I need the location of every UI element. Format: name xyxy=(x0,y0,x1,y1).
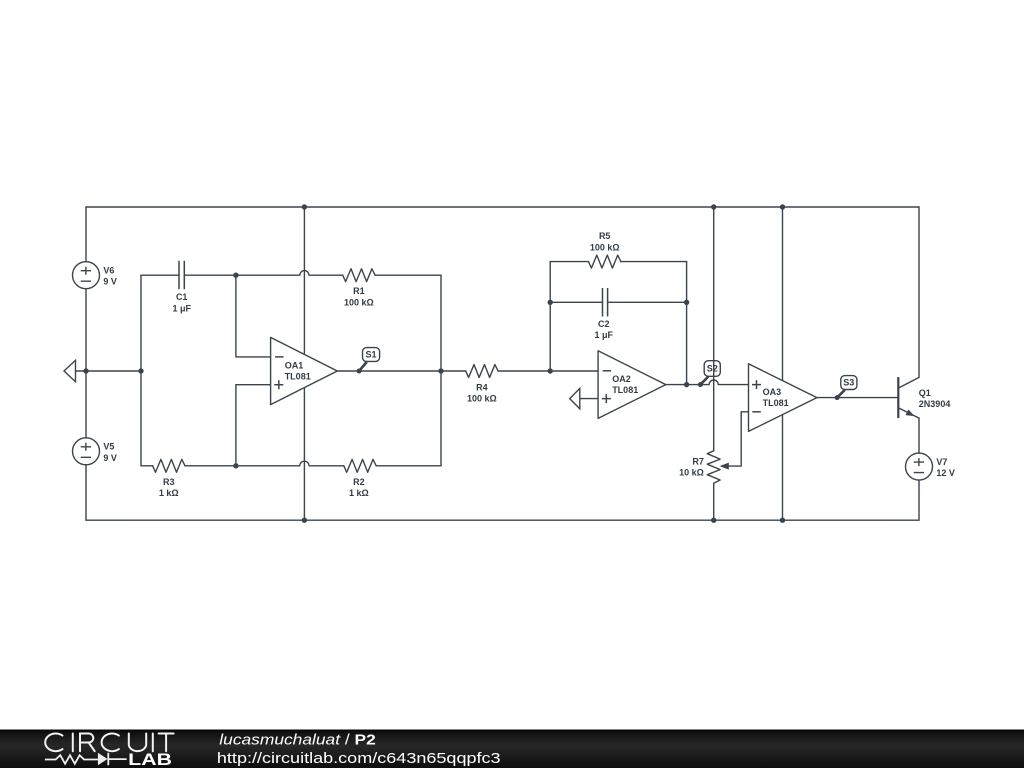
wire R5 right lead xyxy=(621,261,687,263)
svg-text:Q1: Q1 xyxy=(919,388,931,398)
svg-text:LAB: LAB xyxy=(128,751,172,768)
wire right rail upper xyxy=(918,207,920,377)
wire R2 right lead xyxy=(376,465,441,467)
svg-text:R3: R3 xyxy=(163,477,175,487)
logo diode triangle xyxy=(98,753,108,765)
wire R1 to right feedback corner xyxy=(375,274,441,276)
resistor R4 zigzag xyxy=(466,365,498,378)
wire vertical x441 feedback xyxy=(440,275,442,466)
wire C1 left lead xyxy=(141,274,179,276)
wire R4 to OA2 inverting input xyxy=(498,370,598,372)
label R1 xyxy=(344,286,374,307)
resistor R2 zigzag xyxy=(344,459,376,472)
svg-text:S3: S3 xyxy=(843,378,854,388)
svg-text:1 μF: 1 μF xyxy=(595,330,614,340)
op-amp OA3 xyxy=(749,364,817,432)
wire R7 wiper from OA3 inverting input xyxy=(726,412,741,466)
wire OA1 output xyxy=(337,370,441,372)
label R5 xyxy=(590,231,620,252)
svg-text:V7: V7 xyxy=(936,457,947,467)
wire OA2 output with hop over x714 rail xyxy=(666,380,749,385)
label V6 xyxy=(103,266,117,287)
wire OA2 feedback loop right vertical xyxy=(686,262,688,385)
potentiometer R7 zigzag xyxy=(707,451,720,483)
footer bar xyxy=(0,730,1024,768)
op-amp OA2 xyxy=(598,351,666,419)
label R4 xyxy=(467,382,497,403)
wire left rail lower xyxy=(85,465,87,520)
label R7 xyxy=(679,456,704,477)
voltage source V5 xyxy=(73,438,100,465)
wire C2 right lead xyxy=(608,301,687,303)
capacitor C2 plates xyxy=(603,288,608,317)
wire Q1 emitter diagonal xyxy=(898,408,919,418)
label R3 xyxy=(159,477,179,498)
wire R4 left lead xyxy=(441,370,466,372)
wire mid rail vertical x304 xyxy=(303,207,305,520)
potentiometer R7 wiper arrow xyxy=(720,463,729,470)
svg-text:1 kΩ: 1 kΩ xyxy=(159,488,179,498)
label V5 xyxy=(103,442,117,463)
label Q1 xyxy=(919,388,951,409)
probe tag S2 xyxy=(698,361,720,387)
wire vertical x714 upper xyxy=(713,207,715,451)
label C1 xyxy=(172,292,191,313)
svg-text:R7: R7 xyxy=(692,456,704,466)
svg-text:100 kΩ: 100 kΩ xyxy=(590,242,620,252)
svg-text:V5: V5 xyxy=(103,442,114,452)
wire R3 left lead xyxy=(141,465,153,467)
resistor R3 zigzag xyxy=(153,459,185,472)
wire R3 to R2 with hop over mid rail xyxy=(185,461,344,466)
svg-text:R4: R4 xyxy=(476,382,488,392)
wire R5 left lead xyxy=(550,261,588,263)
voltage source V7 xyxy=(906,453,933,480)
wire OA2 feedback loop left vertical xyxy=(549,262,551,371)
junction node dots xyxy=(83,204,785,523)
svg-text:100 kΩ: 100 kΩ xyxy=(467,394,497,404)
svg-text:lucasmuchaluat / P2: lucasmuchaluat / P2 xyxy=(219,732,375,749)
wire vertical x714 lower xyxy=(713,483,715,520)
svg-text:C2: C2 xyxy=(598,319,610,329)
wire input node to C1 branch xyxy=(76,370,142,372)
input flag node left xyxy=(64,360,76,381)
svg-text:S2: S2 xyxy=(707,364,718,374)
logo CIRCUIT letters xyxy=(45,734,173,752)
svg-text:S1: S1 xyxy=(365,350,376,360)
svg-text:OA1: OA1 xyxy=(285,361,304,371)
wire right rail lower xyxy=(918,480,920,520)
wire left rail upper xyxy=(85,207,87,262)
svg-text:1 kΩ: 1 kΩ xyxy=(349,488,369,498)
svg-text:R2: R2 xyxy=(353,477,365,487)
wire C1 right lead to R1 with hop over mid rail xyxy=(184,271,342,276)
capacitor C1 plates xyxy=(179,261,184,290)
svg-text:C1: C1 xyxy=(176,292,188,302)
wire OA3 output to Q1 base xyxy=(817,397,898,399)
resistor R1 zigzag xyxy=(343,269,375,282)
label C2 xyxy=(595,319,614,340)
svg-text:9 V: 9 V xyxy=(103,453,117,463)
svg-text:http://circuitlab.com/c643n65q: http://circuitlab.com/c643n65qqpfc3 xyxy=(217,750,501,767)
svg-text:100 kΩ: 100 kΩ xyxy=(344,297,374,307)
wire C2 left lead xyxy=(550,301,602,303)
svg-text:9 V: 9 V xyxy=(103,277,117,287)
svg-text:TL081: TL081 xyxy=(763,398,789,408)
resistor R5 zigzag xyxy=(589,255,621,268)
wire OA3 inverting input stub xyxy=(741,411,748,413)
wire top rail xyxy=(86,206,919,208)
wire OA1 non-inverting input branch xyxy=(236,385,271,466)
label R2 xyxy=(349,477,369,498)
svg-text:10 kΩ: 10 kΩ xyxy=(679,468,704,478)
logo resistor-diode symbol xyxy=(45,753,127,765)
svg-text:12 V: 12 V xyxy=(936,468,955,478)
probe tag S1 xyxy=(357,348,380,374)
svg-text:1 μF: 1 μF xyxy=(172,303,191,313)
probe tag S3 xyxy=(835,376,857,401)
svg-text:TL081: TL081 xyxy=(612,385,638,395)
wire right rail emitter segment xyxy=(918,418,920,453)
wire Q1 collector diagonal xyxy=(898,377,919,388)
svg-text:R5: R5 xyxy=(599,231,611,241)
voltage source V6 xyxy=(73,262,100,289)
wire left rail middle xyxy=(85,289,87,438)
svg-text:V6: V6 xyxy=(103,266,114,276)
wire OA1 inverting input branch xyxy=(236,275,271,357)
label V7 xyxy=(936,457,955,478)
ground flag OA2 non-inverting input xyxy=(570,388,598,408)
wire bottom rail xyxy=(86,519,919,521)
svg-text:TL081: TL081 xyxy=(285,372,311,382)
op-amp OA1 xyxy=(271,337,338,404)
svg-text:OA2: OA2 xyxy=(612,374,631,384)
svg-text:R1: R1 xyxy=(353,286,365,296)
wire vertical x141 C1/R3 loop xyxy=(140,275,142,466)
transistor Q1 xyxy=(898,377,914,418)
wire vertical x782 rail xyxy=(782,207,784,520)
svg-text:2N3904: 2N3904 xyxy=(919,399,951,409)
svg-text:OA3: OA3 xyxy=(763,387,782,397)
